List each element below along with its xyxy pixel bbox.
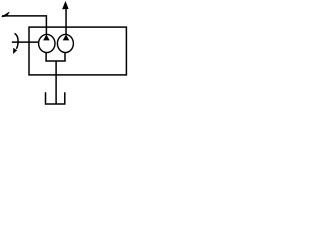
tank — [46, 92, 65, 104]
pump circle P2 — [57, 34, 73, 52]
pump P1 flow triangle — [43, 35, 50, 41]
wire drain to tank — [55, 61, 57, 104]
arrowhead up — [63, 2, 69, 9]
wire P2 bottom stub — [64, 52, 66, 61]
enclosure box — [29, 27, 126, 75]
pump circle P1 — [39, 34, 55, 52]
wire manifold — [45, 60, 65, 62]
wire P1 top port to left arrow — [2, 16, 46, 35]
drive shaft line — [12, 41, 39, 43]
wire P2 top port up arrow — [65, 8, 67, 35]
wire P1 bottom stub — [45, 52, 47, 61]
pump P2 flow triangle — [63, 35, 70, 41]
arrowhead down on arc — [13, 48, 16, 53]
rotation direction arc — [15, 33, 19, 48]
arrowhead left — [2, 12, 10, 17]
